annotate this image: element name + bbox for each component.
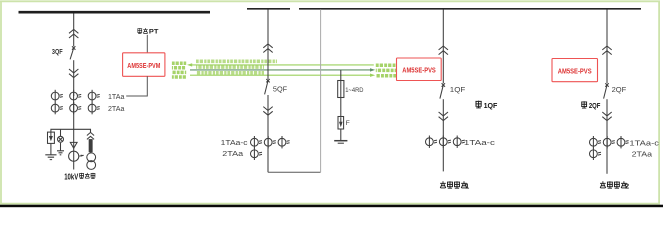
arrester lead <box>340 129 342 140</box>
small arrow right of circle <box>79 154 83 157</box>
wire bay1 upper <box>73 13 75 46</box>
svg-text:AM5SE-PVS: AM5SE-PVS <box>402 66 436 75</box>
relay AM5SE-PVS box 2 <box>552 59 598 82</box>
wire PT label to PVM box <box>146 35 148 53</box>
tie loop horizontal <box>268 171 321 173</box>
svg-text:1TAa-c: 1TAa-c <box>464 140 496 147</box>
CT 2TAa phase b <box>70 102 82 114</box>
svg-text:5QF: 5QF <box>273 87 287 94</box>
signal line 1 (arrow left) <box>190 64 374 66</box>
CT #1TAa-c phase c <box>453 136 465 148</box>
1QF blade <box>440 85 443 99</box>
tie riser to section II bus <box>320 9 322 172</box>
2QF x mark <box>605 83 608 86</box>
svg-text:10kV: 10kV <box>64 173 78 182</box>
svg-text:1TAa-c: 1TAa-c <box>221 140 248 147</box>
PT branch drop <box>90 129 92 132</box>
middle green annotation rows <box>196 61 277 73</box>
surge arrester box <box>48 132 55 143</box>
relay AM5SE-PVS box 1 <box>397 58 442 81</box>
1QF x mark <box>442 83 445 86</box>
breaker 3QF x mark <box>72 46 75 49</box>
CT 2TAa phase a <box>51 102 63 114</box>
5QF chevrons top <box>263 44 272 53</box>
2QF chevrons top <box>602 46 611 55</box>
CT 1TAa phase b <box>70 90 82 102</box>
signal line 3 (arrow right) <box>190 74 371 76</box>
CT #1TAa-c phase a <box>426 136 438 148</box>
bus segment B <box>299 8 641 10</box>
fuse 1~4RD box <box>338 81 344 98</box>
PT fuse bar <box>89 140 92 152</box>
svg-text:1QF: 1QF <box>484 101 498 110</box>
connector PVM to CT <box>126 76 147 96</box>
svg-text:PT: PT <box>149 29 159 36</box>
svg-text:2QF: 2QF <box>589 101 601 110</box>
svg-text:2TAa: 2TAa <box>108 106 125 113</box>
wire fuse branch <box>340 70 342 117</box>
1QF chevrons top <box>439 46 448 55</box>
cable head triangle <box>70 142 77 148</box>
svg-text:1QF: 1QF <box>450 87 466 94</box>
CT 2TAa <box>590 148 602 160</box>
label PV infeed 2 <box>600 181 629 190</box>
label PV infeed 1 <box>440 181 470 190</box>
svg-text:2TAa: 2TAa <box>222 151 243 158</box>
svg-text:1TAa: 1TAa <box>108 94 125 101</box>
arrester F box <box>338 117 344 130</box>
wire to branch <box>73 102 75 170</box>
busbar section I (thick) <box>19 11 211 14</box>
breaker 3QF drawout chevrons top <box>69 29 78 38</box>
CT 1TAa-c phase c <box>278 136 290 148</box>
CT 1TAa-c phase a <box>590 136 602 148</box>
wire below blade <box>73 60 75 96</box>
label 10kV incoming <box>64 173 95 182</box>
wire below blade <box>442 99 444 171</box>
5QF x mark <box>266 79 269 82</box>
1QF chevrons bottom <box>439 112 448 121</box>
breaker 3QF blade <box>70 48 74 59</box>
svg-text:2: 2 <box>625 182 629 191</box>
label trip 2QF <box>581 101 601 110</box>
svg-text:3QF: 3QF <box>52 49 63 56</box>
PT branch chevrons <box>87 132 94 139</box>
wire below blade <box>606 99 608 174</box>
svg-text:1~4RD: 1~4RD <box>345 87 364 94</box>
svg-text:F: F <box>346 120 350 127</box>
ground fuse branch <box>334 140 347 142</box>
wire 1QF upper <box>442 10 444 84</box>
CT 2TAa <box>251 148 263 160</box>
lamp branch wire <box>60 129 62 136</box>
signal line 2 dark (arrow right) <box>190 69 371 71</box>
left signal labels (green text block) <box>172 63 186 77</box>
CT 1TAa phase c <box>88 90 100 102</box>
svg-text:AM5SE-PVM: AM5SE-PVM <box>127 61 160 70</box>
5QF chevrons bottom <box>263 107 272 116</box>
CT 1TAa-c phase c <box>617 136 629 148</box>
svg-text:AM5SE-PVS: AM5SE-PVS <box>558 67 592 76</box>
2QF blade <box>604 85 607 99</box>
voltage transformer circles <box>87 153 96 162</box>
wire 2QF upper <box>606 10 608 84</box>
CT #1TAa-c phase b <box>439 136 451 148</box>
right signal labels (green text block) <box>376 65 397 76</box>
ground arrester <box>45 155 56 160</box>
wire below blade <box>267 95 269 172</box>
lamp lead <box>60 143 62 151</box>
5QF blade <box>265 81 268 95</box>
bottom black bar <box>0 205 663 208</box>
CT 1TAa-c phase b <box>264 136 276 148</box>
ground lamp <box>57 151 64 155</box>
wire 5QF upper <box>267 10 269 80</box>
CT 1TAa-c phase a <box>251 136 263 148</box>
arrester lead <box>50 143 52 154</box>
indicator lamp circle-x <box>58 136 64 142</box>
CT 2TAa phase c <box>88 102 100 114</box>
svg-text:2QF: 2QF <box>612 87 627 94</box>
drawout chevrons bottom <box>69 69 78 78</box>
bus segment A <box>247 8 290 10</box>
label trip 1QF <box>475 101 497 110</box>
svg-text:2TAa: 2TAa <box>632 151 653 158</box>
label bus PT <box>137 28 158 35</box>
2QF chevrons bottom <box>602 112 611 121</box>
CT 1TAa phase a <box>51 90 63 102</box>
CT 1TAa-c phase b <box>603 136 615 148</box>
relay AM5SE-PVM box <box>123 53 165 77</box>
live display circle <box>69 151 79 161</box>
svg-text:1TAa-c: 1TAa-c <box>629 140 659 147</box>
branch horizontal <box>51 129 91 132</box>
